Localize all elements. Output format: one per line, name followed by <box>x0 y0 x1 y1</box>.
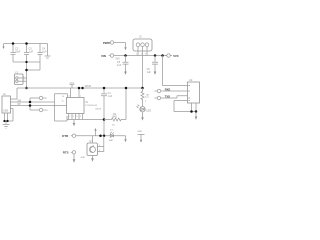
svg-text:FT230XS-R: FT230XS-R <box>85 105 97 107</box>
svg-text:5V0: 5V0 <box>116 58 121 60</box>
svg-text:15: 15 <box>62 100 64 102</box>
svg-text:+3V3: +3V3 <box>69 82 75 84</box>
svg-text:BAT: BAT <box>109 139 114 142</box>
svg-text:USB: USB <box>3 110 8 113</box>
svg-text:1K0: 1K0 <box>146 93 149 98</box>
svg-text:10uF: 10uF <box>15 51 21 54</box>
svg-text:LED: LED <box>146 109 151 112</box>
svg-text:.1uF: .1uF <box>42 51 47 54</box>
svg-text:VBUS: VBUS <box>85 85 92 88</box>
svg-text:RXD: RXD <box>165 87 171 91</box>
svg-text:4: 4 <box>69 96 70 98</box>
svg-text:5V0: 5V0 <box>173 54 179 58</box>
svg-text:.1uF: .1uF <box>146 71 151 74</box>
svg-text:16: 16 <box>62 96 64 98</box>
svg-text:GND: GND <box>81 157 86 159</box>
svg-text:GND: GND <box>137 131 142 133</box>
svg-text:5: 5 <box>69 116 70 118</box>
svg-text:U2: U2 <box>189 78 193 82</box>
svg-text:Y1: Y1 <box>15 71 19 75</box>
svg-text:DTR: DTR <box>62 134 69 138</box>
svg-text:DM: DM <box>18 100 22 102</box>
svg-text:TXD: TXD <box>165 94 170 98</box>
svg-text:1: 1 <box>80 96 81 98</box>
svg-text:10K0: 10K0 <box>112 116 118 119</box>
svg-text:.1uF: .1uF <box>108 95 113 98</box>
svg-text:CBUS: CBUS <box>95 109 102 111</box>
svg-text:.1uF: .1uF <box>116 64 121 67</box>
svg-text:3: 3 <box>80 116 81 118</box>
svg-text:.1uF: .1uF <box>28 51 33 54</box>
svg-text:2: 2 <box>73 116 74 118</box>
svg-text:PWR: PWR <box>103 41 111 45</box>
svg-text:RTS: RTS <box>63 151 69 155</box>
svg-text:6: 6 <box>76 116 77 118</box>
svg-text:D-: D- <box>45 97 48 100</box>
svg-text:DC: DC <box>112 125 116 127</box>
svg-text:VIN: VIN <box>101 54 106 58</box>
svg-text:DP: DP <box>18 104 22 106</box>
